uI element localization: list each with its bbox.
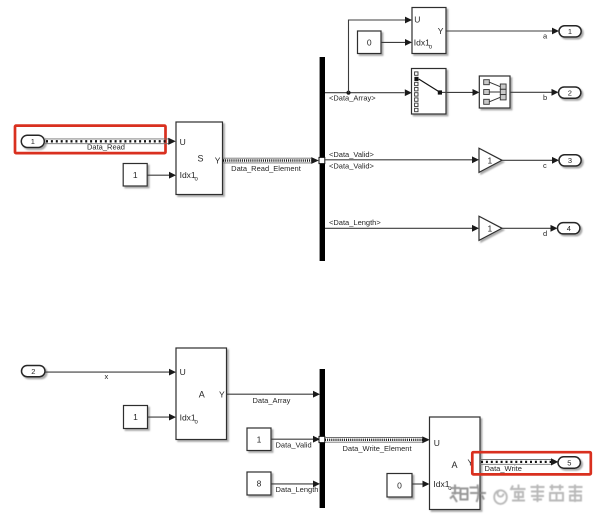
svg-text:Y: Y [215,156,221,166]
wire Data_Read (dotted bus) [45,138,176,145]
wire [148,172,177,179]
wire [148,414,177,421]
wire Data_Array out of bar [325,89,412,96]
wire Data_Valid [271,436,320,443]
node junction Data_Array [346,91,350,95]
label Data_Length [276,485,319,494]
svg-text:Data_Write: Data_Write [485,464,522,473]
svg-text:Data_Read_Element: Data_Read_Element [231,164,302,173]
svg-text:<Data_Valid>: <Data_Valid> [329,150,375,159]
outport 1 [559,26,581,37]
vector concatenate [479,76,510,108]
wire Data_Length [271,481,320,488]
selector S1 [176,122,223,195]
bus creator bar [320,369,325,508]
svg-text:c: c [543,161,547,170]
inport 2 [22,366,46,377]
svg-text:2: 2 [31,367,35,376]
constant 1 (Data_Valid) [247,428,271,451]
gain c [479,148,502,172]
svg-text:Idx1: Idx1 [414,38,430,48]
svg-text:U: U [180,367,186,377]
svg-text:1: 1 [488,223,493,233]
connector on bus selector [319,157,325,163]
label a [543,32,548,41]
svg-text:A: A [199,390,205,400]
svg-text:1: 1 [257,434,262,444]
wire branch up to selector U [349,17,413,93]
constant 0 (to A2 Idx1) [387,474,412,498]
label Data_Read [87,142,125,151]
svg-text:U: U [414,15,420,25]
wire Data_Length out of bar [325,225,479,232]
label b [543,93,547,102]
svg-text:Idx1: Idx1 [180,413,196,423]
watermark zhihu [450,485,486,503]
svg-text:Y: Y [219,390,225,400]
wire Data_Array to bus creator [227,391,321,398]
svg-text:Idx1: Idx1 [433,479,449,489]
selector U2 [412,8,446,54]
inport 1 [21,135,44,147]
constant 1 (to A1 Idx1) [124,406,148,429]
outport 4 [558,223,580,234]
label Data_Valid [276,440,312,449]
highlight red box around Data_Read [15,126,166,154]
svg-text:U: U [434,438,440,448]
svg-text:Data_Read: Data_Read [87,142,125,151]
label Data_Read_Element [231,164,302,173]
wire [412,481,430,488]
svg-text:1: 1 [133,170,138,180]
label <Data_Valid> upper [329,150,375,159]
svg-text:d: d [543,229,547,238]
svg-text:A: A [452,460,458,470]
assignment A2 [430,417,481,510]
svg-text:1: 1 [568,27,572,36]
svg-text:<Data_Length>: <Data_Length> [329,218,381,227]
svg-text:2: 2 [568,89,572,98]
svg-text:Y: Y [438,26,444,36]
svg-text:3: 3 [568,156,572,165]
highlight red box around Data_Write [472,452,591,474]
svg-text:Data_Write_Element: Data_Write_Element [343,444,413,453]
label <Data_Length> [329,218,381,227]
outport 3 [559,155,581,166]
label c [543,161,547,170]
svg-text:1: 1 [31,137,35,146]
wire Data_Read_Element (striped) [223,157,319,164]
wire Data_Valid out of bar [325,156,479,163]
label x [105,372,109,381]
connector on bus creator [319,436,325,442]
svg-text:Idx1: Idx1 [180,170,196,180]
svg-text:S: S [198,154,204,164]
wire to out b [510,89,559,96]
svg-text:1: 1 [133,412,138,422]
multiport switch (index vector) [412,69,447,115]
svg-text:1: 1 [488,155,493,165]
constant 8 (Data_Length) [247,472,271,495]
svg-text:U: U [180,137,186,147]
svg-text:4: 4 [567,224,571,233]
svg-text:<Data_Array>: <Data_Array> [329,94,376,103]
constant 1 (to S Idx1) [123,164,147,187]
svg-text:<Data_Valid>: <Data_Valid> [329,161,375,170]
gain d [479,216,502,240]
svg-text:5: 5 [567,458,571,467]
wire to out c [502,157,559,164]
assignment A1 [176,348,227,440]
wire Data_Write_Element (striped) [325,436,430,443]
svg-text:0: 0 [397,480,402,490]
label Data_Array [253,396,291,405]
label d [543,229,547,238]
svg-text:Data_Length: Data_Length [276,485,319,494]
label Data_Write [485,464,522,473]
bus selector bar [320,57,325,261]
wire Data_Write (dotted bus) [480,458,558,465]
wire Y to out a [446,28,559,35]
svg-text:Data_Valid: Data_Valid [276,440,312,449]
svg-text:Data_Array: Data_Array [253,396,291,405]
svg-text:b: b [543,93,547,102]
wire to out d [502,225,558,232]
outport 5 [558,457,580,468]
outport 2 [559,87,581,98]
label <Data_Array> [329,94,376,103]
label Data_Write_Element [343,444,413,453]
svg-text:0: 0 [367,37,372,47]
svg-text:8: 8 [257,479,262,489]
wire x [45,369,176,376]
label <Data_Valid> lower [329,161,375,170]
svg-text:x: x [105,372,109,381]
constant 0 (to selector2 Idx1) [358,31,382,54]
wire to concat [446,89,480,96]
wire [381,39,412,46]
